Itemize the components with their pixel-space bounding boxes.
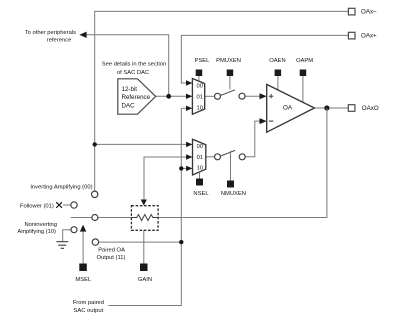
terminal circle inverting (00) bbox=[92, 191, 98, 197]
control square OAEN bbox=[275, 70, 282, 77]
node junction paired net / option row bbox=[179, 240, 183, 244]
svg-text:10: 10 bbox=[197, 166, 203, 172]
op-amp plus sign bbox=[269, 94, 273, 98]
svg-text:DAC: DAC bbox=[122, 102, 136, 109]
wire paired OA output option row bbox=[98, 241, 181, 243]
svg-text:Output (11): Output (11) bbox=[97, 255, 126, 261]
node junction paired net / NSEL 10 bbox=[179, 166, 183, 170]
wire noninverting circle to ground bbox=[63, 230, 72, 242]
control square GAIN bbox=[140, 264, 148, 272]
arrow op-amp + input bbox=[260, 93, 267, 99]
wire NSEL square stub bbox=[199, 172, 201, 179]
wire MSEL arrow shaft bbox=[82, 232, 84, 264]
svg-text:OAx–: OAx– bbox=[361, 9, 377, 16]
control square NMUXEN bbox=[227, 181, 234, 188]
svg-text:reference: reference bbox=[47, 37, 72, 43]
arrow NSEL input 10 bbox=[186, 166, 192, 171]
ground bbox=[56, 242, 68, 249]
terminal circle noninverting (10) bbox=[71, 227, 77, 233]
svg-text:01: 01 bbox=[196, 95, 202, 101]
svg-text:Inverting Amplifying (00): Inverting Amplifying (00) bbox=[30, 185, 92, 191]
svg-text:From paired: From paired bbox=[73, 300, 104, 306]
DAC U1 12-bit reference DAC bbox=[118, 79, 156, 114]
svg-text:MSEL: MSEL bbox=[75, 277, 92, 283]
control square OAPM bbox=[300, 70, 307, 77]
svg-text:OAxO: OAxO bbox=[362, 105, 379, 112]
pin square OAx+ bbox=[348, 32, 355, 39]
svg-text:OAx+: OAx+ bbox=[361, 33, 377, 40]
svg-text:of SAC DAC: of SAC DAC bbox=[117, 70, 149, 76]
wire PSEL mux output to switch bbox=[205, 95, 215, 97]
svg-text:OAEN: OAEN bbox=[269, 58, 285, 64]
wire OAx- net: pin to left rail bbox=[95, 11, 349, 191]
arrow NSEL input 00 bbox=[186, 142, 192, 147]
wire NSEL 01 from PGA tap bbox=[144, 157, 189, 200]
terminal circle paired OA output (11) bbox=[92, 239, 98, 245]
svg-text:PSEL: PSEL bbox=[195, 58, 211, 64]
svg-text:Paired OA: Paired OA bbox=[98, 248, 125, 254]
wire PGA left lead to MSEL common stub bbox=[71, 217, 132, 219]
svg-text:SAC output: SAC output bbox=[74, 308, 104, 314]
wire OAPM square stub bbox=[302, 76, 304, 102]
pin square OAxO bbox=[348, 105, 355, 112]
arrow NSEL input 01 bbox=[186, 154, 192, 159]
switch PMUXEN circle B bbox=[239, 93, 245, 99]
wire DAC output to PSEL 01 bbox=[156, 95, 189, 97]
gain network dashed box bbox=[131, 206, 158, 231]
svg-text:OAPM: OAPM bbox=[296, 58, 313, 64]
svg-text:NMUXEN: NMUXEN bbox=[221, 191, 246, 197]
control square PMUXEN bbox=[227, 70, 234, 77]
wire PMUXEN switch to op-amp + input bbox=[245, 95, 261, 97]
wire paired net to NSEL 10 bbox=[181, 167, 188, 169]
wire PMUXEN square stub bbox=[229, 76, 231, 89]
wire NMUXEN square stub bbox=[230, 151, 232, 181]
wire follower X to circle bbox=[63, 204, 71, 206]
mux PSEL bbox=[192, 79, 204, 115]
svg-text:Noninverting: Noninverting bbox=[24, 222, 57, 228]
wire PSEL square stub bbox=[198, 76, 200, 81]
svg-text:12-bit: 12-bit bbox=[122, 86, 138, 93]
svg-text:10: 10 bbox=[196, 106, 202, 112]
op-amp OA bbox=[267, 84, 315, 132]
svg-text:Follower (01): Follower (01) bbox=[20, 203, 54, 209]
svg-text:GAIN: GAIN bbox=[138, 277, 152, 283]
resistor R gain bbox=[131, 215, 158, 221]
node junction OAx- / NSEL00 bbox=[93, 142, 97, 146]
svg-text:See details in the section: See details in the section bbox=[102, 62, 166, 68]
no-connect X follower bbox=[56, 202, 62, 208]
terminal circle follower (01) bbox=[71, 202, 77, 208]
wire paired SAC output net vertical bbox=[109, 108, 182, 305]
arrow MSEL selector (up) bbox=[80, 225, 86, 232]
arrow to other peripherals (left) bbox=[79, 32, 86, 38]
control square NSEL bbox=[196, 179, 203, 186]
svg-text:00: 00 bbox=[196, 84, 202, 90]
wire OAEN square stub bbox=[277, 76, 279, 90]
switch NMUXEN lever bbox=[220, 150, 235, 156]
control square MSEL bbox=[79, 264, 87, 272]
switch PMUXEN lever bbox=[220, 90, 235, 96]
wire OAx- branch to NSEL 00 bbox=[95, 143, 189, 145]
node junction op-amp output bbox=[324, 105, 329, 110]
wire paired net to PSEL 10 bbox=[181, 107, 188, 109]
svg-text:01: 01 bbox=[197, 155, 203, 161]
arrow PSEL input 10 bbox=[186, 106, 192, 111]
arrow PSEL input 01 bbox=[186, 94, 192, 99]
svg-text:Amplifying (10): Amplifying (10) bbox=[17, 229, 56, 235]
control square PSEL bbox=[196, 70, 203, 77]
svg-text:NSEL: NSEL bbox=[193, 191, 209, 197]
arrow PSEL input 00 bbox=[186, 80, 192, 85]
op-amp minus sign bbox=[269, 120, 273, 122]
terminal circle PGA common (on feedback line) bbox=[92, 215, 98, 221]
wire NMUXEN switch to op-amp - input bbox=[245, 121, 261, 157]
switch NMUXEN circle B bbox=[239, 154, 245, 160]
switch NMUXEN circle A bbox=[215, 154, 221, 160]
wire gain box bottom to GAIN square bbox=[143, 230, 145, 263]
wire to other peripherals reference bbox=[86, 35, 169, 97]
mux NSEL bbox=[193, 139, 206, 175]
svg-text:OA: OA bbox=[283, 104, 293, 111]
arrow PGA tap (down into box) bbox=[141, 200, 147, 206]
svg-text:PMUXEN: PMUXEN bbox=[216, 58, 241, 64]
svg-text:To other peripherals: To other peripherals bbox=[25, 30, 76, 36]
svg-text:00: 00 bbox=[197, 144, 203, 150]
wire OAx+ net: pin to PSEL 00 bbox=[181, 35, 348, 83]
wire NSEL mux output to switch bbox=[206, 156, 215, 158]
wire op-amp output to OAxO pin bbox=[314, 107, 348, 109]
arrow op-amp - input bbox=[260, 118, 267, 124]
pin square OAx- bbox=[348, 8, 355, 15]
switch PMUXEN circle A bbox=[215, 93, 221, 99]
node junction DAC output bbox=[166, 94, 171, 99]
wire feedback from output down and left through PGA bbox=[158, 108, 327, 218]
svg-text:Reference: Reference bbox=[122, 94, 151, 101]
